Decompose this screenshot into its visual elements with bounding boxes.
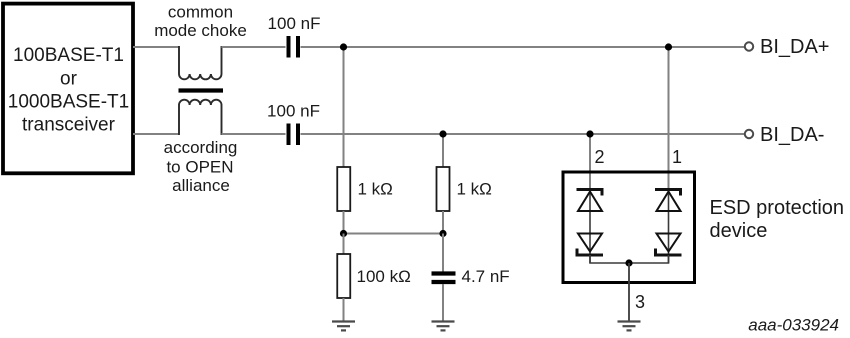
wire: R1 bottom to center node row [343,211,345,234]
resistor R3 100 kOhm [337,254,350,298]
svg-text:ESD protection: ESD protection [710,197,845,219]
wire: pin 3 to ground [628,263,630,321]
wire: R3 bottom to ground [343,298,345,321]
wire: horizontal center node row [344,233,444,235]
svg-text:1000BASE-T1: 1000BASE-T1 [8,92,129,113]
svg-text:3: 3 [635,292,645,312]
wire: bottom from choke to C2 [222,133,286,135]
diode D1 (left top, cathode up) [577,190,603,212]
label: according to OPEN alliance [164,138,238,195]
capacitor C2 100 nF (bottom) [289,124,299,146]
node: junction dot top bus / R1 [340,43,347,50]
wire: C3 bottom to ground [442,284,444,321]
svg-text:100BASE-T1: 100BASE-T1 [13,45,124,66]
svg-text:device: device [710,220,768,242]
ESD protection device box U2 [563,172,695,283]
node: junction dot top bus / pin 1 [665,43,672,50]
ground: below ESD pin 3 [618,322,641,331]
label: common mode choke [154,3,247,40]
wire: top from choke to C1 [222,46,286,48]
svg-text:100 nF: 100 nF [267,102,320,121]
common mode choke L1: core bar [179,88,224,92]
ground: below C3 [432,322,455,331]
wire: left diode column vertical [589,190,591,263]
svg-text:BI_DA+: BI_DA+ [760,36,829,58]
node: junction dot pin 3 tie [625,259,632,266]
node: junction dot bottom bus / pin 2 [586,130,593,137]
node: junction dot bottom bus / R2 [439,130,446,137]
wire: center row down to R3 [343,234,345,255]
capacitor C1 100 nF (top) [289,36,299,58]
capacitor C3 4.7 nF [432,274,456,283]
svg-text:mode choke: mode choke [154,21,247,40]
node: junction dot right of center row [439,230,446,237]
wire: pin 2 from bottom bus into ESD box [589,134,591,190]
wire: top bus from C1 to BI_DA+ terminal [301,46,745,48]
svg-text:2: 2 [594,147,604,167]
svg-text:alliance: alliance [172,176,230,195]
wire: bottom tie inside ESD box [590,255,669,263]
common mode choke L1: bottom winding [179,100,222,135]
wire: R2 bottom to center node row [442,211,444,234]
diode D4 (right bottom, cathode down) [656,234,682,256]
label: ESD protection device [710,197,845,242]
terminal: BI_DA+ [745,42,753,50]
svg-text:4.7 nF: 4.7 nF [462,267,510,286]
wire: bottom bus from C2 to BI_DA- terminal [301,133,745,135]
svg-text:transceiver: transceiver [22,115,116,136]
resistor R2 1 kOhm [437,167,450,211]
svg-text:BI_DA-: BI_DA- [760,124,824,146]
wire: pin 1 from top bus into ESD box [668,47,670,190]
wire: vertical from bottom bus to R2 [442,134,444,167]
svg-text:1 kΩ: 1 kΩ [358,180,393,199]
wire: top from transceiver to choke [133,46,179,48]
svg-text:1 kΩ: 1 kΩ [457,180,492,199]
wire: right diode column vertical [668,190,670,263]
resistor R1 1 kOhm [337,167,350,211]
ground: below R3 [332,322,355,331]
transceiver box label [8,45,129,136]
svg-text:to OPEN: to OPEN [166,157,233,176]
svg-text:common: common [168,3,233,22]
svg-text:according: according [164,138,238,157]
common mode choke L1: top winding [179,46,222,79]
svg-text:or: or [60,68,78,89]
svg-text:100 nF: 100 nF [268,14,321,33]
wire: bottom from transceiver to choke [133,133,179,135]
wire: center row down to C3 [442,234,444,272]
diode D2 (left bottom, cathode down) [577,234,603,256]
svg-text:aaa-033924: aaa-033924 [748,316,839,335]
wire: vertical from top bus to R1 [343,47,345,167]
svg-text:1: 1 [672,147,682,167]
svg-text:100 kΩ: 100 kΩ [357,267,411,286]
transceiver box U1 [3,4,133,174]
node: junction dot left of center row [340,230,347,237]
terminal: BI_DA- [745,130,753,138]
diode D3 (right top, cathode up) [655,190,681,212]
